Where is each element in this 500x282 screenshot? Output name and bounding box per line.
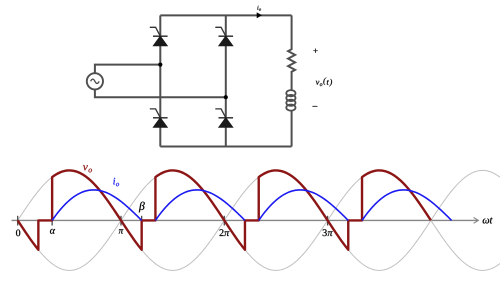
node junction right leg (224, 95, 228, 99)
tick 3pi (327, 216, 329, 226)
label omega-t (483, 218, 493, 224)
label 2pi (219, 229, 229, 236)
arrow i_o on top bus (257, 12, 262, 18)
thyristor T2 lower-right (219, 117, 234, 119)
label v_o plot (83, 165, 92, 172)
curve i_o pulse 3 (259, 190, 349, 221)
thyristor T4 lower-left (153, 117, 168, 119)
label beta (139, 202, 145, 213)
label alpha (50, 229, 55, 234)
label plus (313, 49, 317, 53)
wire left bridge leg (159, 15, 161, 146)
wire right bridge leg (225, 15, 227, 146)
thyristor T3 upper-right (219, 35, 234, 37)
source Vs (AC) (87, 73, 103, 89)
label i_o plot (113, 178, 119, 186)
tick 2pi (223, 216, 225, 226)
curve i_o pulse 2 (155, 190, 245, 221)
wire top bus (160, 14, 291, 16)
resistor R load (288, 15, 295, 90)
label pi (119, 229, 124, 233)
node junction left leg (158, 63, 162, 67)
wire inductor to bottom bus (291, 111, 293, 147)
label v_o(t) (316, 78, 332, 87)
tick beta (141, 216, 143, 221)
wire source top to left leg (95, 65, 160, 74)
wire bottom bus (160, 146, 291, 148)
label i_o circuit (257, 6, 261, 11)
label 0 (16, 230, 20, 237)
tick alpha (51, 216, 53, 226)
inductor L load (286, 90, 295, 96)
label minus (313, 105, 318, 108)
grid sine +vs (18, 170, 500, 270)
wire source bottom to right leg (95, 89, 226, 97)
tick pi (120, 216, 122, 226)
grid sine -vs (18, 170, 500, 270)
axis omega-t (12, 219, 478, 221)
label 3pi (323, 229, 333, 236)
curve i_o pulse 1 (52, 190, 142, 221)
curve i_o pulse 4 (362, 190, 452, 221)
curve v_o output voltage (18, 170, 431, 249)
tick 0 (17, 216, 19, 226)
thyristor T1 upper-left (153, 35, 168, 37)
